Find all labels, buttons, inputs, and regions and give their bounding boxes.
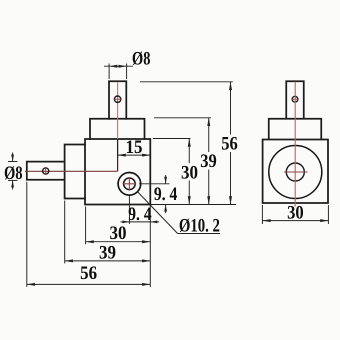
dimension Ø8 (left stem) [8,153,18,190]
left flange [65,145,85,199]
extension line body top right [153,138,191,140]
dimension 39 (right side vertical) [208,118,210,205]
left stem [27,162,65,180]
leader Ø10.2 [137,192,220,234]
body (main view) [85,139,150,205]
right view flange [269,119,322,140]
right view stem hole crosshair [291,98,298,100]
dimension 39 (bottom) [65,201,151,264]
extension line flange top right [154,117,211,119]
dimension 9.4 (horizontal, circle to body right) [121,196,160,225]
right view centerline vertical [294,82,296,207]
right view square body [263,140,328,204]
left stem hole crosshair [45,167,47,175]
right view hole crosshair [284,171,308,173]
centerline vertical (stem axis) [117,82,119,139]
stem hole crosshair [114,98,122,100]
dimension 30 (right side vertical) [188,139,190,205]
port hole crosshair [123,177,137,191]
right view center hole [286,163,304,181]
centerline horizontal (left stem axis) [25,170,118,172]
dimension 30 (right view) [262,205,328,224]
extension line body bottom right [150,204,236,206]
right view boss circle [269,146,322,199]
right view stem [286,81,304,119]
dimension 9.4 (vertical, circle to body bottom) [139,175,170,213]
left stem hole [43,168,49,174]
dimension 15 [118,139,151,158]
dimension 56 (right side vertical) [230,82,232,205]
dimension 56 (bottom) [27,182,151,287]
dimension 30 (bottom) [86,207,151,245]
right view stem hole [292,96,298,102]
extension line stem top right [140,81,233,83]
dimension Ø8 (top stem) [104,64,133,80]
upper flange [90,119,145,139]
vertical stem [109,81,126,119]
stem hole [114,96,120,102]
port hole outer circle [118,173,141,196]
centerline vertical inside body [117,139,119,171]
port hole inner circle [124,178,136,190]
